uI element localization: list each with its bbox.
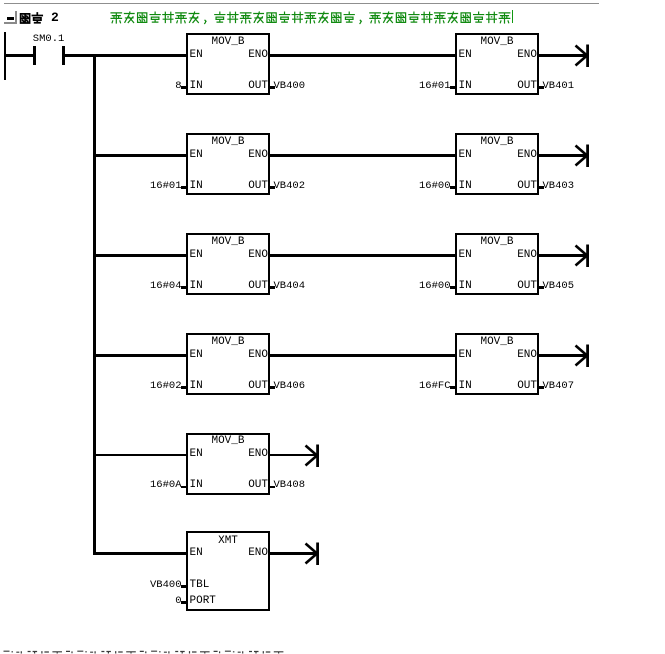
wire row6 ENO to arrow xyxy=(270,552,316,555)
U8 OUT tick xyxy=(538,386,545,388)
block MOV_B U5 xyxy=(186,233,270,295)
U2 pin OUT xyxy=(507,81,537,92)
U10 PORT tick xyxy=(181,601,188,603)
U9 IN value 16#0A xyxy=(112,480,182,491)
U2 OUT tick xyxy=(538,86,545,88)
left power rail xyxy=(4,32,6,81)
block MOV_B U9 xyxy=(186,433,270,495)
U9 OUT tick xyxy=(269,486,276,488)
U5 pin EN xyxy=(190,250,203,261)
U1 pin OUT xyxy=(238,81,268,92)
U1 title MOV_B xyxy=(186,37,270,48)
U4 pin OUT xyxy=(507,181,537,192)
U5 OUT tick xyxy=(269,286,276,288)
U7 pin OUT xyxy=(238,381,268,392)
U7 pin ENO xyxy=(238,350,268,361)
wire row4 right ENO to arrow xyxy=(539,354,586,357)
open arrow row2 xyxy=(574,144,591,168)
U10 pin ENO xyxy=(238,548,268,559)
block MOV_B U4 xyxy=(455,133,539,195)
wire row2 left ENO to right EN xyxy=(270,154,456,157)
U8 title MOV_B xyxy=(455,337,539,348)
U5 title MOV_B xyxy=(186,237,270,248)
U2 pin IN xyxy=(459,81,472,92)
U10 PORT value 0 xyxy=(112,596,182,607)
U4 OUT value VB403 xyxy=(543,181,575,192)
U8 OUT value VB407 xyxy=(543,381,575,392)
wire row5 ENO to arrow xyxy=(270,454,316,457)
wire row2 right ENO to arrow xyxy=(539,154,586,157)
block MOV_B U1 xyxy=(186,33,270,95)
wire row1 left ENO to right EN xyxy=(270,54,456,57)
U6 OUT tick xyxy=(538,286,545,288)
U6 pin ENO xyxy=(507,250,537,261)
U8 IN value 16#FC xyxy=(381,381,451,392)
U8 pin ENO xyxy=(507,350,537,361)
U2 pin EN xyxy=(459,50,472,61)
U7 pin IN xyxy=(190,381,203,392)
U9 title MOV_B xyxy=(186,436,270,447)
block MOV_B U6 xyxy=(455,233,539,295)
U4 pin EN xyxy=(459,150,472,161)
open arrow row6 xyxy=(304,542,321,566)
open arrow row4 xyxy=(574,344,591,368)
U8 pin IN xyxy=(459,381,472,392)
U4 IN tick xyxy=(450,186,457,188)
U3 pin OUT xyxy=(238,181,268,192)
network title text 网络 xyxy=(19,12,45,26)
block MOV_B U8 xyxy=(455,333,539,395)
U1 pin ENO xyxy=(238,50,268,61)
U5 IN value 16#04 xyxy=(112,281,182,292)
U9 IN tick xyxy=(181,486,188,488)
U9 pin IN xyxy=(190,480,203,491)
U5 pin OUT xyxy=(238,281,268,292)
wire branch to block row5 xyxy=(93,454,187,457)
contact SM0.1 right bar xyxy=(62,46,65,65)
U10 pin PORT xyxy=(190,596,216,607)
U9 pin EN xyxy=(190,449,203,460)
U3 OUT tick xyxy=(269,186,276,188)
U3 IN value 16#01 xyxy=(112,181,182,192)
U3 pin IN xyxy=(190,181,203,192)
U10 TBL value VB400 xyxy=(112,580,182,591)
open arrow row5 xyxy=(304,444,321,468)
wire row3 right ENO to arrow xyxy=(539,254,586,257)
U8 pin OUT xyxy=(507,381,537,392)
clipped bottom text xyxy=(2,650,288,654)
U10 TBL tick xyxy=(181,585,188,587)
U6 IN tick xyxy=(450,286,457,288)
U10 pin TBL xyxy=(190,580,210,591)
U4 title MOV_B xyxy=(455,137,539,148)
text caret xyxy=(512,10,514,23)
U3 title MOV_B xyxy=(186,137,270,148)
U7 IN tick xyxy=(181,386,188,388)
block MOV_B U3 xyxy=(186,133,270,195)
U5 OUT value VB404 xyxy=(274,281,306,292)
contact SM0.1 left bar xyxy=(33,46,36,65)
U4 pin ENO xyxy=(507,150,537,161)
U7 pin EN xyxy=(190,350,203,361)
contact label SM0.1 xyxy=(33,34,65,45)
U7 OUT tick xyxy=(269,386,276,388)
open arrow row1 xyxy=(574,44,591,68)
U1 OUT value VB400 xyxy=(274,81,306,92)
U7 IN value 16#02 xyxy=(112,381,182,392)
block MOV_B U7 xyxy=(186,333,270,395)
U3 pin EN xyxy=(190,150,203,161)
U7 OUT value VB406 xyxy=(274,381,306,392)
U8 pin EN xyxy=(459,350,472,361)
U10 title XMT xyxy=(186,536,270,547)
wire row1 right ENO to arrow xyxy=(539,54,586,57)
network collapse icon xyxy=(4,11,17,24)
U1 pin EN xyxy=(190,50,203,61)
U2 IN tick xyxy=(450,86,457,88)
U4 OUT tick xyxy=(538,186,545,188)
wire branch to block row2 xyxy=(93,154,187,157)
wire branch to block row3 xyxy=(93,254,187,257)
U6 OUT value VB405 xyxy=(543,281,575,292)
U5 IN tick xyxy=(181,286,188,288)
U3 OUT value VB402 xyxy=(274,181,306,192)
U5 pin IN xyxy=(190,281,203,292)
wire rail to contact xyxy=(4,54,34,57)
wire row4 left ENO to right EN xyxy=(270,354,456,357)
U9 OUT value VB408 xyxy=(274,480,306,491)
U6 IN value 16#00 xyxy=(381,281,451,292)
U4 IN value 16#00 xyxy=(381,181,451,192)
wire branch to block row4 xyxy=(93,354,187,357)
U8 IN tick xyxy=(450,386,457,388)
U3 IN tick xyxy=(181,186,188,188)
U1 IN value 8 xyxy=(112,81,182,92)
block XMT U10 xyxy=(186,531,270,611)
wire contact to block row1 xyxy=(65,54,187,57)
U2 pin ENO xyxy=(507,50,537,61)
U10 pin EN xyxy=(190,548,203,559)
U6 pin OUT xyxy=(507,281,537,292)
U6 pin EN xyxy=(459,250,472,261)
U4 pin IN xyxy=(459,181,472,192)
network number 2 xyxy=(51,11,59,24)
open arrow row3 xyxy=(574,244,591,268)
U2 OUT value VB401 xyxy=(543,81,575,92)
U3 pin ENO xyxy=(238,150,268,161)
U1 OUT tick xyxy=(269,86,276,88)
U2 title MOV_B xyxy=(455,37,539,48)
U9 pin ENO xyxy=(238,449,268,460)
branch vertical wire xyxy=(93,54,95,555)
U1 pin IN xyxy=(190,81,203,92)
U9 pin OUT xyxy=(238,480,268,491)
U7 title MOV_B xyxy=(186,337,270,348)
U5 pin ENO xyxy=(238,250,268,261)
U2 IN value 16#01 xyxy=(381,81,451,92)
wire branch to block row6 xyxy=(93,552,187,555)
wire row3 left ENO to right EN xyxy=(270,254,456,257)
U1 IN tick xyxy=(181,86,188,88)
network separator line xyxy=(4,3,599,4)
comment text green xyxy=(110,11,513,25)
U6 title MOV_B xyxy=(455,237,539,248)
U6 pin IN xyxy=(459,281,472,292)
block MOV_B U2 xyxy=(455,33,539,95)
